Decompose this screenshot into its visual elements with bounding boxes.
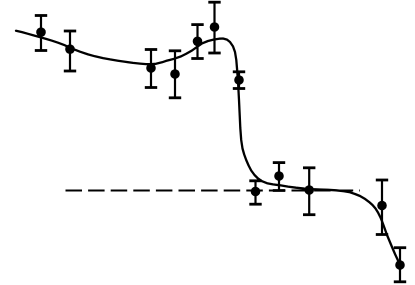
error bar P12 [394, 248, 406, 282]
data point P6 [210, 22, 220, 32]
data point P10 [304, 185, 314, 195]
data point P5 [193, 37, 203, 47]
data point P8 [251, 187, 261, 197]
error bar P1 [35, 16, 47, 51]
dashed baseline [66, 189, 361, 191]
data point P2 [65, 44, 75, 54]
data point P12 [395, 260, 405, 270]
error bar P5 [191, 25, 203, 59]
error bar P6 [208, 2, 220, 53]
error bar P8 [249, 181, 261, 204]
data point P9 [274, 171, 284, 181]
error bar P4 [169, 51, 181, 98]
data point P4 [170, 69, 180, 79]
error bar P3 [145, 50, 157, 88]
data point P3 [146, 63, 156, 73]
data point P1 [36, 27, 46, 37]
error bar P11 [376, 180, 388, 235]
fitted curve [16, 31, 401, 266]
error bar P9 [273, 163, 285, 191]
error bar P7 [233, 72, 245, 89]
error bar P10 [303, 168, 315, 215]
error bar P2 [64, 31, 76, 71]
data point P7 [234, 75, 244, 85]
data point P11 [377, 201, 387, 211]
